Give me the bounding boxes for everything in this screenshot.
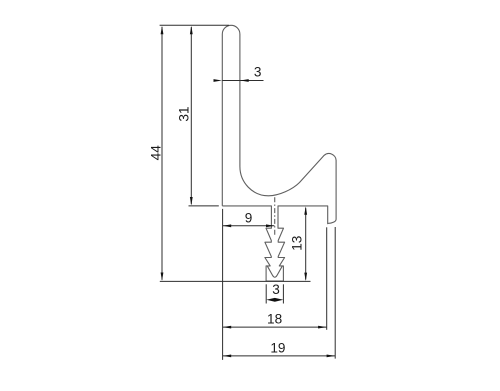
dim 44 arrows xyxy=(161,26,164,34)
center line (dash-dot) xyxy=(274,197,276,236)
right extension line (18) xyxy=(326,227,328,329)
dim 3 top line xyxy=(222,80,263,82)
web-top extension (left of stem) xyxy=(189,205,219,207)
dim 3 top arrows xyxy=(214,79,223,82)
barb tip inner V xyxy=(267,266,282,277)
dim 19 line xyxy=(223,355,336,357)
dim 3 bottom extension lines xyxy=(265,284,267,303)
dim 18 arrows xyxy=(223,326,231,329)
dim 9 arrows xyxy=(223,224,231,227)
profile outline xyxy=(222,25,336,281)
svg-text:3: 3 xyxy=(272,282,280,297)
dim 44 line xyxy=(161,27,163,280)
dim 13 line xyxy=(305,208,307,280)
right extension line (19) xyxy=(334,227,336,359)
bottom reference plane line xyxy=(160,280,311,282)
svg-text:31: 31 xyxy=(176,106,191,121)
dim 31 line xyxy=(190,27,192,204)
svg-text:9: 9 xyxy=(245,211,253,226)
svg-text:18: 18 xyxy=(267,312,282,327)
dim 3 bottom diamond arrows xyxy=(266,298,283,302)
dimension texts xyxy=(148,65,304,356)
dim 31 arrows xyxy=(190,26,193,34)
left extension line (18/19) xyxy=(222,209,224,360)
svg-text:19: 19 xyxy=(270,340,285,355)
svg-text:13: 13 xyxy=(290,236,305,251)
dim 19 arrows xyxy=(223,355,231,358)
dim 18 line xyxy=(223,326,327,328)
top extension line xyxy=(160,24,229,26)
svg-text:44: 44 xyxy=(148,145,163,161)
svg-text:3: 3 xyxy=(254,65,262,80)
dim 13 arrows xyxy=(304,206,307,214)
arrowheads xyxy=(161,26,335,358)
dim 9 line xyxy=(223,225,275,227)
